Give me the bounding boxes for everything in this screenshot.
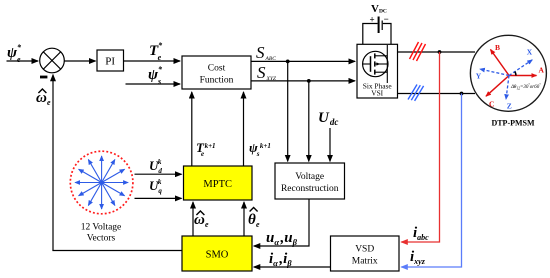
svg-text:DTP-PMSM: DTP-PMSM <box>491 119 535 128</box>
wire i_xyz measurement blue <box>401 94 461 268</box>
minus sign <box>40 76 47 79</box>
transistor mosfet symbol <box>363 45 388 83</box>
block PI <box>97 50 124 71</box>
wire battery to VSI <box>363 24 391 45</box>
wire flux reference to Cost Function <box>126 83 181 85</box>
svg-text:ixyz: ixyz <box>410 249 426 266</box>
motor phase vector C <box>486 76 509 97</box>
motor phase vector B <box>491 50 510 76</box>
block Six Phase VSI <box>357 44 398 98</box>
svg-text:Voltage: Voltage <box>295 172 324 182</box>
svg-text:iabc: iabc <box>413 225 429 242</box>
wire MPTC to Cost Function psi_s <box>243 92 245 166</box>
svg-text:e: e <box>47 98 51 107</box>
wire feedback vertical <box>52 75 54 251</box>
svg-text:Udk: Udk <box>149 158 162 175</box>
motor DTP-PMSM body <box>470 35 546 111</box>
wire S_xyz to VSI <box>251 80 355 82</box>
wire VSI to motor abc <box>398 51 476 53</box>
three-phase marks abc red <box>410 42 426 61</box>
svg-text:A: A <box>539 66 545 75</box>
node S_xyz junction <box>307 79 311 83</box>
svg-text:Udc: Udc <box>318 110 338 127</box>
svg-text:uα,uβ: uα,uβ <box>266 230 298 247</box>
battery V_DC <box>370 14 389 33</box>
svg-text:Vectors: Vectors <box>87 234 116 244</box>
wire summing junction to PI <box>64 60 95 62</box>
svg-text:ψ*s: ψ*s <box>148 65 163 86</box>
motor phase vector Y <box>480 69 509 76</box>
svg-text:Z: Z <box>507 102 512 111</box>
12 voltage vectors wheel <box>70 151 133 214</box>
svg-text:VSD: VSD <box>355 245 374 255</box>
wire U_dc to Voltage Reconstruction <box>329 128 331 161</box>
svg-text:X: X <box>527 48 533 57</box>
wire Voltage Reconstruction to SMO u_alpha u_beta <box>254 199 309 246</box>
label theta_e_hat <box>248 208 260 230</box>
svg-text:e: e <box>205 220 209 229</box>
svg-text:Matrix: Matrix <box>352 257 378 267</box>
svg-text:Cost: Cost <box>208 64 226 74</box>
wire VSD Matrix to SMO i_alpha i_beta <box>254 266 331 268</box>
node motor xyz junction <box>460 92 464 96</box>
svg-text:Y: Y <box>476 72 482 81</box>
block MPTC <box>184 166 253 200</box>
wire S_abc down to Voltage Reconstruction <box>287 61 289 161</box>
svg-text:PI: PI <box>105 56 115 68</box>
block Voltage Reconstruction <box>275 163 345 199</box>
motor phase vector X <box>509 60 532 76</box>
svg-text:ψsk+1: ψsk+1 <box>249 140 271 158</box>
svg-text:C: C <box>489 100 494 109</box>
wire PI to Cost Function <box>124 60 181 62</box>
svg-text:VSI: VSI <box>371 89 383 98</box>
block SMO <box>182 236 252 271</box>
three-phase marks xyz blue <box>408 85 424 101</box>
wire i_abc measurement red <box>401 52 439 242</box>
svg-text:T*e: T*e <box>149 41 163 62</box>
svg-text:SXYZ: SXYZ <box>257 63 277 82</box>
svg-text:Reconstruction: Reconstruction <box>281 184 339 194</box>
node motor abc junction <box>438 50 442 54</box>
label omega_e_hat SMO output <box>194 211 209 229</box>
wire feedback horizontal from SMO <box>52 250 182 252</box>
angle arc between A and X <box>515 72 516 76</box>
block VSD Matrix <box>331 236 400 271</box>
wire speed reference input <box>7 60 39 62</box>
wire S_abc to VSI <box>251 60 355 62</box>
wire U_q to MPTC <box>135 197 182 199</box>
label 12 Voltage Vectors <box>81 223 122 244</box>
svg-text:Uqk: Uqk <box>149 178 162 195</box>
wire SMO to MPTC theta <box>243 202 245 236</box>
svg-text:12 Voltage: 12 Voltage <box>81 223 122 233</box>
svg-text:MPTC: MPTC <box>203 179 232 190</box>
block Cost Function <box>182 56 251 89</box>
node S_abc junction <box>286 60 290 64</box>
wire S_xyz down to Voltage Reconstruction <box>308 81 310 161</box>
svg-text:e: e <box>256 220 260 229</box>
wire MPTC to Cost Function Te <box>191 92 193 166</box>
label omega_e_hat feedback <box>36 89 51 107</box>
svg-text:Tek+1: Tek+1 <box>196 140 216 158</box>
summing junction <box>40 48 65 73</box>
wire VSI to motor xyz <box>398 93 476 95</box>
motor phase vector Z <box>506 76 509 100</box>
svg-text:SMO: SMO <box>206 250 229 261</box>
wire U_d to MPTC <box>135 173 182 175</box>
svg-text:B: B <box>495 43 500 52</box>
svg-text:SABC: SABC <box>256 43 276 62</box>
wire SMO to MPTC omega <box>192 202 194 236</box>
svg-text:−: − <box>384 14 389 24</box>
motor phase vector A <box>509 75 537 77</box>
svg-text:Function: Function <box>200 76 234 86</box>
svg-text:θ: θ <box>248 212 256 228</box>
svg-text:iα,iβ: iα,iβ <box>269 251 292 268</box>
